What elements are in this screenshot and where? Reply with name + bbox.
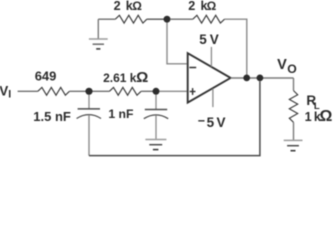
capacitor C1 1.5 nF (node B to feedback rail) <box>77 95 101 156</box>
ground G3 (under RL) <box>284 140 303 150</box>
wire output corner down to RL <box>293 78 295 91</box>
wire to node A <box>147 18 164 20</box>
wire bottom feedback loop (node E to C1) <box>89 81 260 155</box>
wire node A to second resistor <box>170 18 193 20</box>
node D junction dot (feedback tap) <box>243 75 250 82</box>
svg-text:Ω: Ω <box>320 108 333 125</box>
svg-text:649: 649 <box>35 69 57 84</box>
svg-text:2: 2 <box>114 0 121 13</box>
ground G1 (top-left, feedback network ground) <box>89 19 108 49</box>
svg-text:V: V <box>0 83 8 98</box>
wire 649 to node B <box>69 90 86 92</box>
capacitor C2 1 nF (node C to ground) <box>144 95 168 139</box>
output wire <box>231 77 294 79</box>
ground G2 (under 1 nF) <box>145 140 166 150</box>
svg-text:1.5 nF: 1.5 nF <box>33 109 71 124</box>
wire from VI <box>18 90 38 92</box>
svg-text:Ω: Ω <box>207 0 217 13</box>
wire node C to non-inverting input <box>160 90 187 92</box>
op-amp U1 <box>188 53 231 102</box>
svg-text:O: O <box>287 62 296 76</box>
resistor 2 kOhm (left feedback) <box>115 15 147 23</box>
resistor 2.61 kOhm <box>109 87 141 95</box>
resistor RL 1 kOhm (vertical) <box>289 91 297 123</box>
node C junction dot <box>153 88 160 95</box>
svg-text:I: I <box>8 89 11 101</box>
negative supply pin <box>212 89 214 108</box>
svg-text:V: V <box>210 32 219 47</box>
resistor 2 kOhm (right feedback) <box>193 15 225 23</box>
svg-text:−: − <box>198 114 205 128</box>
resistor 649 <box>38 87 70 95</box>
svg-text:V: V <box>277 57 287 73</box>
wire node A down to inverting input <box>167 23 187 64</box>
svg-text:5: 5 <box>199 32 207 47</box>
svg-text:Ω: Ω <box>132 0 142 13</box>
node A junction dot <box>164 16 171 23</box>
svg-text:2: 2 <box>188 0 195 13</box>
svg-text:Ω: Ω <box>136 69 148 86</box>
svg-text:1: 1 <box>305 110 312 124</box>
node E junction dot (cap feedback tap) <box>257 75 264 82</box>
wire node B to 2.61k <box>93 90 110 92</box>
positive supply pin <box>210 47 212 67</box>
wire RL to ground <box>293 122 295 140</box>
node B junction dot <box>85 88 92 95</box>
wire top rail left <box>98 18 115 20</box>
svg-text:V: V <box>217 115 226 130</box>
svg-text:2.61 k: 2.61 k <box>103 71 137 85</box>
svg-text:1 nF: 1 nF <box>108 107 133 121</box>
svg-text:5: 5 <box>207 115 215 130</box>
wire 2.61k to node C <box>141 90 153 92</box>
wire feedback top-right corner down to output <box>225 19 247 74</box>
